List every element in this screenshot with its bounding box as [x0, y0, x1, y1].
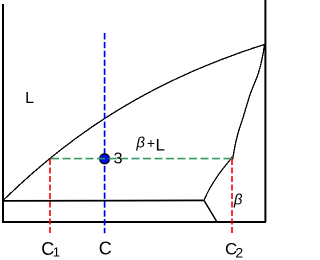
- svg-text:β: β: [135, 135, 145, 152]
- svg-text:L: L: [25, 90, 34, 107]
- svg-text:2: 2: [235, 245, 243, 260]
- svg-text:L: L: [156, 136, 165, 155]
- svg-text:β: β: [233, 191, 243, 208]
- svg-text:C: C: [99, 238, 112, 258]
- svg-text:+: +: [147, 135, 155, 151]
- svg-text:1: 1: [53, 245, 60, 260]
- svg-text:3: 3: [114, 150, 123, 167]
